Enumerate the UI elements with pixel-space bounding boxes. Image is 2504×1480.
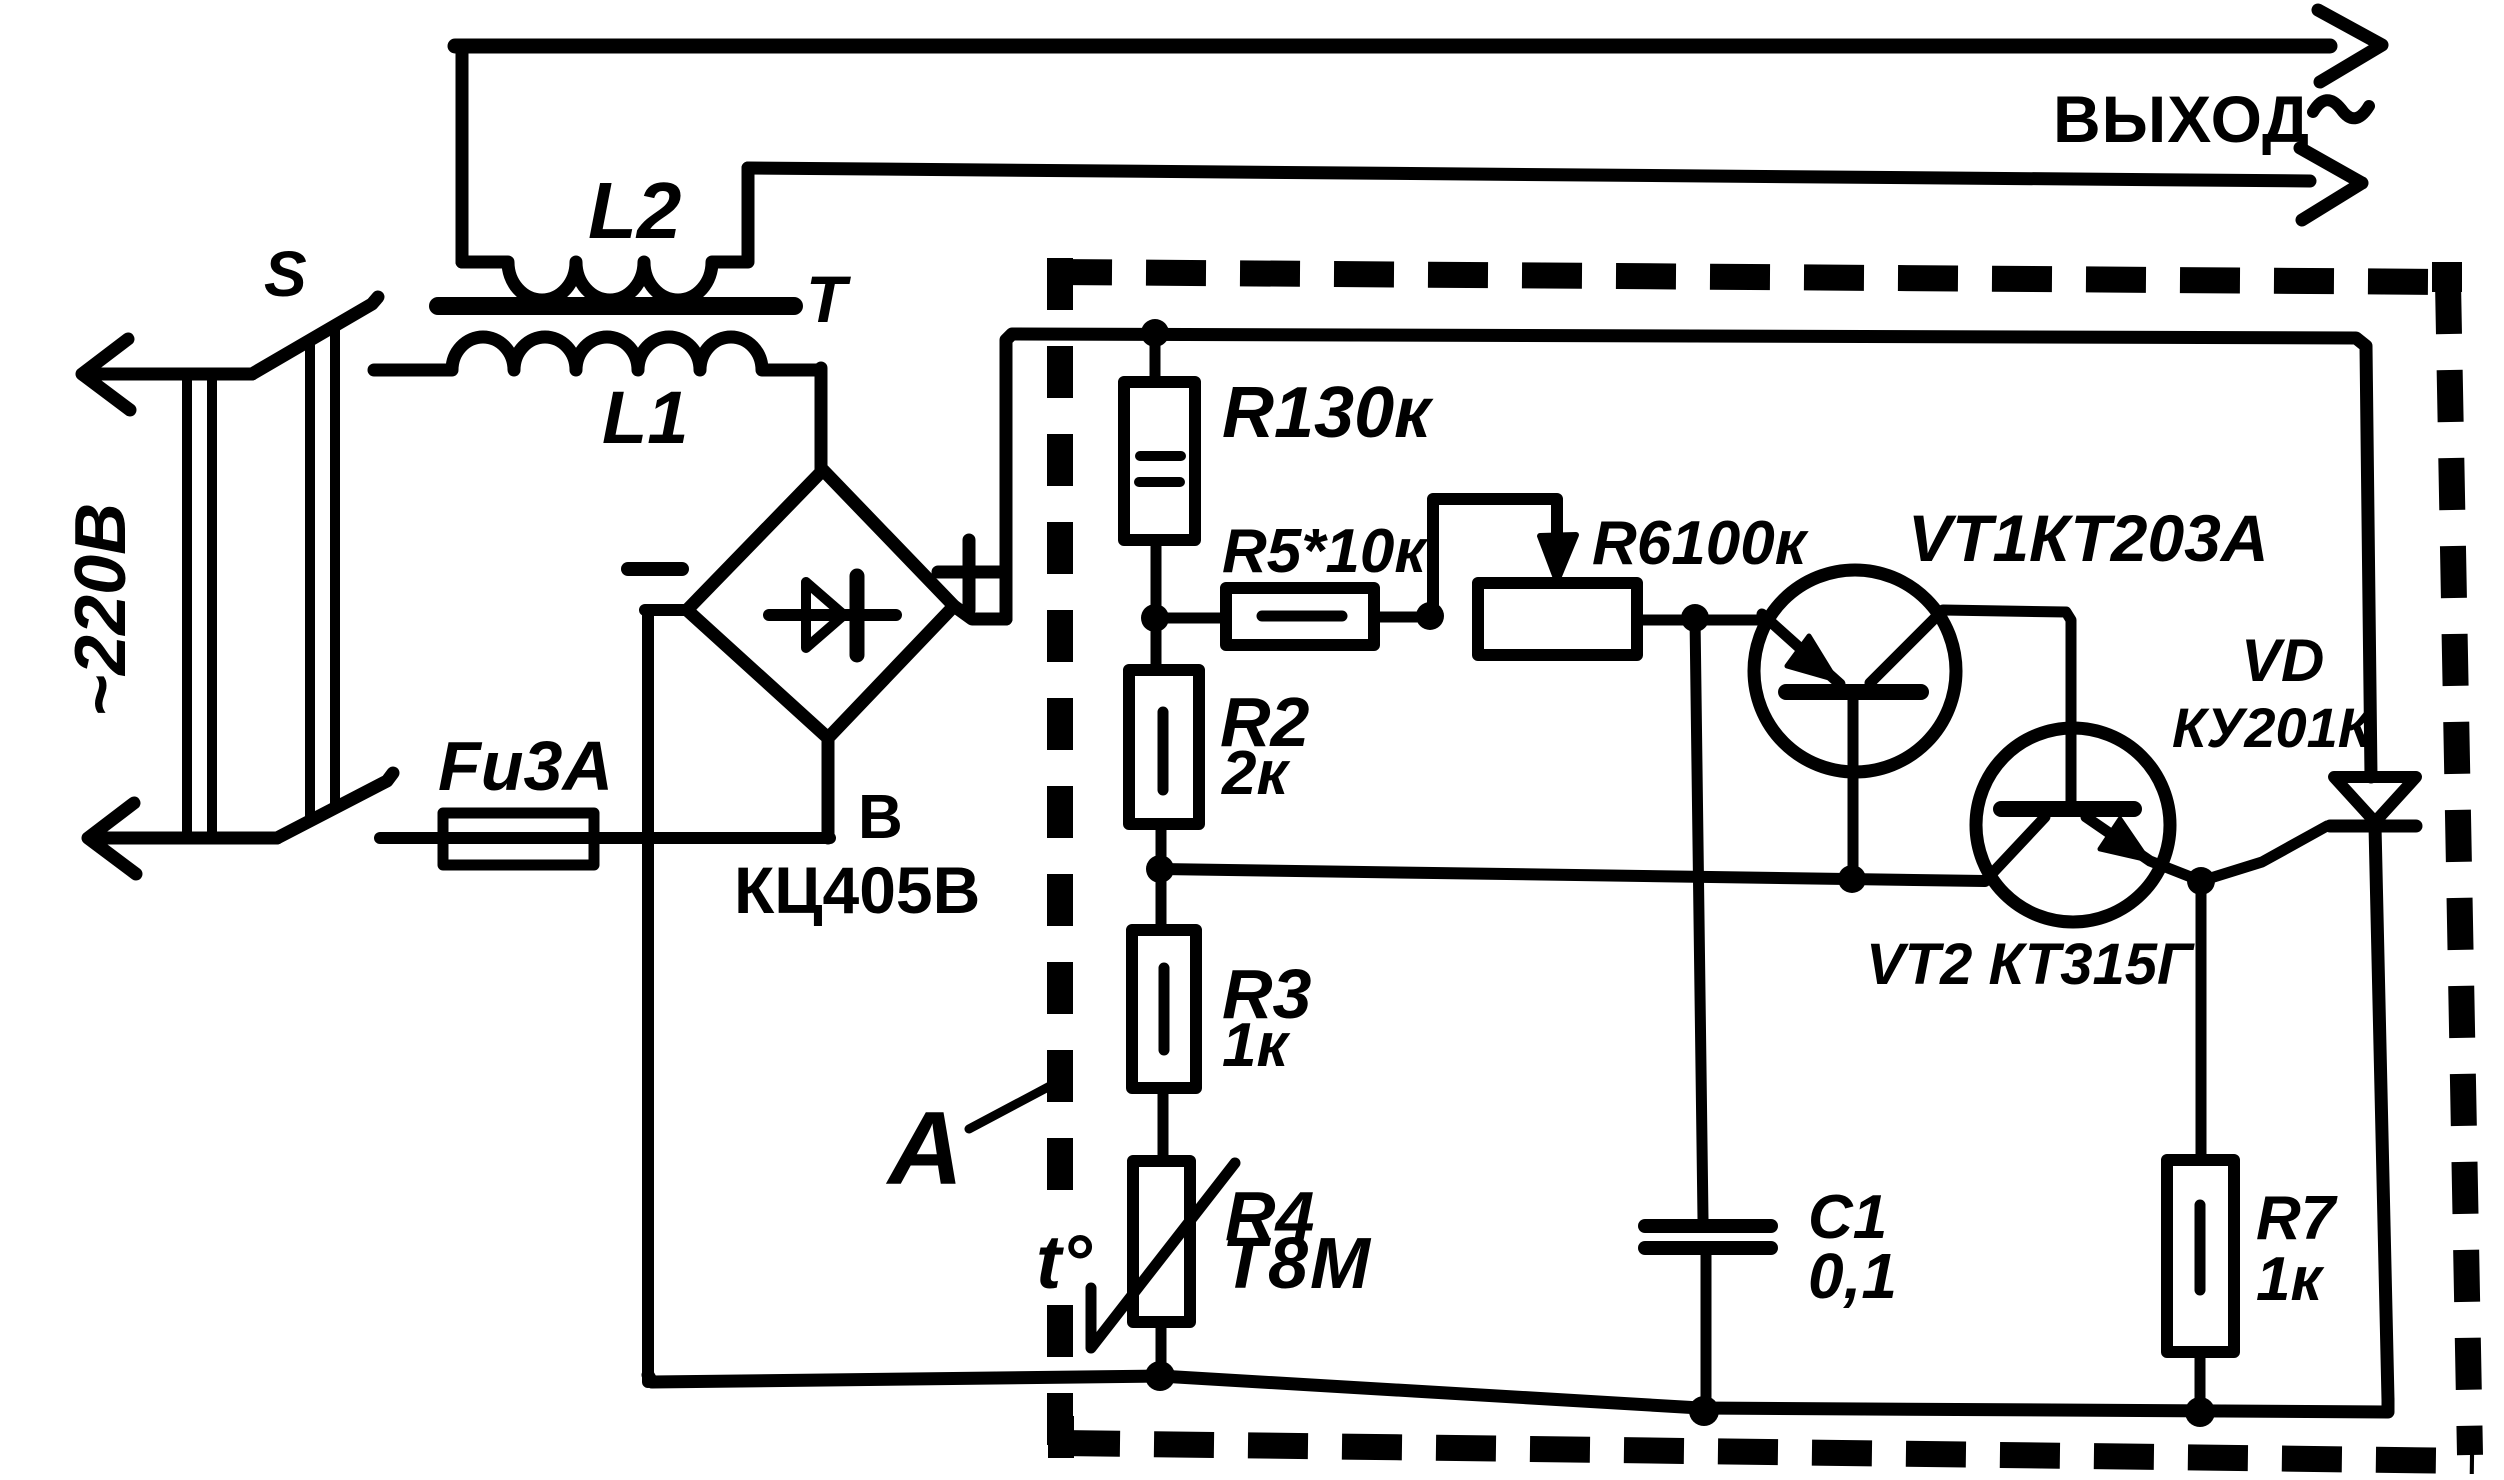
svg-text:R130к: R130к: [1222, 373, 1434, 453]
svg-text:2к: 2к: [1221, 739, 1290, 808]
svg-text:L2: L2: [588, 166, 681, 255]
svg-text:~220В: ~220В: [61, 503, 141, 717]
svg-text:Fu3A: Fu3A: [438, 727, 613, 805]
svg-text:T: T: [806, 262, 851, 336]
svg-text:R5*10к: R5*10к: [1222, 517, 1428, 586]
svg-text:КЦ405В: КЦ405В: [734, 853, 980, 927]
svg-text:1к: 1к: [1222, 1011, 1290, 1080]
svg-text:VT1КТ203А: VT1КТ203А: [1908, 501, 2269, 575]
svg-text:1к: 1к: [2256, 1245, 2324, 1314]
svg-text:R7: R7: [2256, 1184, 2338, 1253]
svg-text:КУ201К: КУ201К: [2172, 696, 2376, 759]
svg-text:t°: t°: [1036, 1220, 1092, 1305]
svg-text:В: В: [858, 783, 903, 852]
svg-text:R6100к: R6100к: [1592, 509, 1809, 578]
svg-text:ВЫХОД: ВЫХОД: [2053, 82, 2310, 156]
svg-text:VT2 КТ315Г: VT2 КТ315Г: [1866, 932, 2195, 997]
svg-text:VD: VD: [2241, 627, 2324, 694]
svg-text:L1: L1: [602, 376, 688, 459]
svg-text:S: S: [264, 238, 307, 310]
svg-text:0,1: 0,1: [1808, 1240, 1897, 1312]
svg-text:Т8М: Т8М: [1222, 1224, 1372, 1304]
svg-text:A: A: [885, 1091, 963, 1207]
